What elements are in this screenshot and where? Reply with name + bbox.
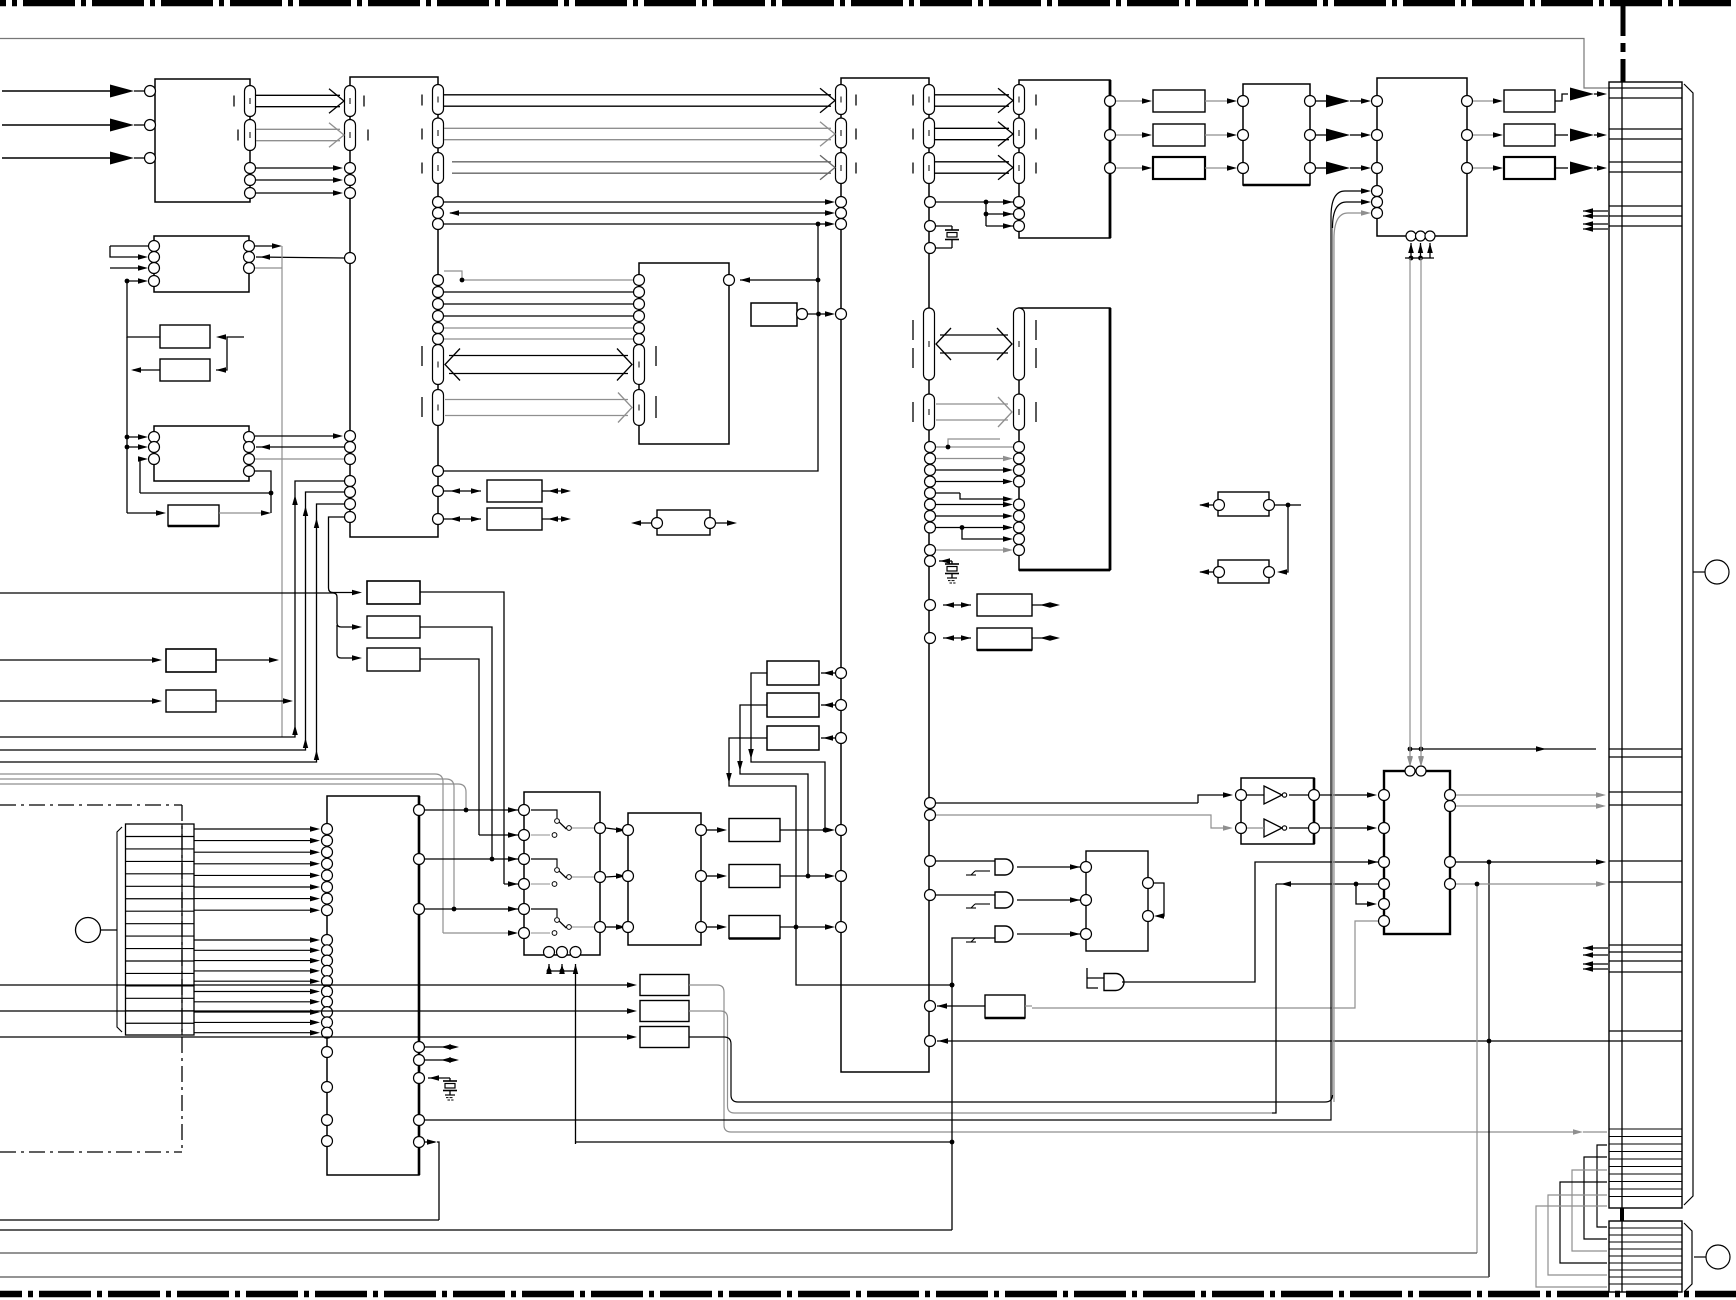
IC U4 encoder	[1019, 80, 1110, 238]
sensor box S3	[0, 1027, 1325, 1103]
resistor block R21	[925, 628, 1061, 650]
wire B2 to connector	[1555, 129, 1607, 142]
bus U2 to U3 C data	[444, 127, 831, 129]
pin bus U10 d	[634, 390, 645, 426]
ref box T3	[726, 726, 846, 929]
wire pickup lines	[194, 824, 333, 1039]
bus U1 to U2 control	[256, 128, 340, 130]
wire U1-U2 s1	[245, 175, 356, 186]
IC U8 sync separator	[154, 236, 249, 292]
wire U3 pin1041	[925, 1036, 1610, 1047]
wire RB1 gray feed	[1032, 921, 1384, 1008]
wire A3 to U11	[1205, 163, 1249, 174]
buffer amp BA2	[1236, 819, 1320, 837]
wire switch riser bottom	[576, 1141, 953, 1143]
wire feedback x818	[433, 224, 821, 477]
rail wire y1253	[0, 1252, 1477, 1254]
wire U6 to SW b	[414, 854, 530, 865]
IC U7 output encoder	[1377, 78, 1467, 236]
wire U2-U10 r1	[433, 287, 645, 298]
input filter FB3	[367, 648, 479, 835]
ref box T2	[737, 693, 846, 878]
wire connector bidir c	[1583, 945, 1608, 958]
wire U8 loop	[110, 241, 160, 287]
delay block R2	[160, 359, 210, 381]
connector CN-A row dividers	[1609, 88, 1682, 1197]
pin bus U2 left A	[345, 86, 356, 117]
bus U1 to U2 data	[256, 94, 340, 96]
wire S3 riser corner	[1325, 1095, 1333, 1102]
wire U3-U4 clk net	[925, 197, 1025, 232]
filter FL1	[1199, 492, 1301, 516]
crystal X1	[925, 221, 960, 254]
connector CN-B outer bracket	[1684, 1223, 1692, 1292]
wire U3 long pair a	[925, 792, 1234, 808]
IC U2 decoder	[350, 77, 438, 537]
input wire IN3	[2, 152, 156, 165]
pin bus U1 right B	[245, 120, 256, 151]
wire U3-U5 d6	[925, 511, 1025, 522]
wire U2-U10 r2	[433, 299, 645, 310]
rail wire y1277	[0, 1276, 1489, 1278]
amp block B3	[1504, 157, 1555, 179]
wire gray riser x282	[281, 246, 283, 737]
top rule wire	[0, 39, 1609, 89]
wire R1R2 link	[127, 281, 244, 513]
wire G2 out	[1017, 895, 1092, 906]
wire U2-U10 r5	[433, 334, 645, 345]
IC U9 PLL	[154, 426, 249, 481]
wire U3-U5 d7	[925, 522, 1025, 533]
wire U3-U5 d1	[925, 453, 1025, 464]
inter-sheet connector CN-A body	[1609, 82, 1682, 1208]
wire U3-U5 d0	[925, 439, 1025, 453]
wire U8 outs	[244, 241, 356, 274]
connector CN-B rows	[1609, 1228, 1682, 1284]
wire U3 to G1	[925, 856, 996, 867]
connector CN-A inner column	[1621, 82, 1623, 1208]
input filter FB1	[367, 581, 504, 884]
wire U7 out 1	[1462, 130, 1504, 141]
pin bus U2 right 3	[433, 153, 444, 184]
wire U6 left aux pins	[322, 1047, 333, 1147]
wire connector bidir a	[1583, 208, 1608, 219]
IC U12 analog switch	[524, 792, 600, 955]
resonator Z1	[631, 510, 737, 535]
pin bus U2 right 1	[433, 85, 444, 115]
crystal X3	[429, 1075, 439, 1081]
wire riser x1332	[1332, 228, 1334, 1095]
wire U7 out 0	[1462, 96, 1504, 107]
amp block A1	[1153, 90, 1205, 112]
wire SW to MUX	[606, 871, 634, 882]
filter FL2	[1199, 505, 1288, 583]
wire MUX outs	[696, 825, 707, 933]
page border bottom (dash-dot bar)	[0, 1291, 1736, 1298]
pin bus U1 right A	[245, 86, 256, 117]
connector CN-A ref circle	[1705, 560, 1729, 584]
wire U4 out 2	[1105, 163, 1153, 174]
wire U2 bus drops	[0, 476, 362, 763]
wire U7 aux inputs	[1331, 186, 1383, 240]
IC U14 line driver	[1241, 778, 1314, 844]
connector CN-B ref circle	[1706, 1245, 1730, 1269]
wire U15 outs right	[1445, 790, 1607, 1278]
pin bus U3 right addr	[924, 308, 935, 380]
bus width ticks	[234, 96, 368, 141]
wire B1 to connector	[1555, 88, 1607, 102]
pin bus U3 right data	[924, 394, 935, 430]
bus U2 to U3 Y data	[444, 94, 831, 96]
IC U6 servo controller	[327, 796, 419, 1175]
connector CN-A outer bracket	[1684, 84, 1693, 1205]
wire U6 aux right pins	[414, 1042, 460, 1084]
wire U3-U5 d8	[960, 525, 1025, 544]
wire connector bidir d	[1583, 961, 1608, 972]
input filter FB2	[367, 616, 494, 861]
wire U2-U10 r3	[433, 311, 645, 322]
IC U16 reset	[1086, 851, 1148, 951]
bus U2 to U3 ctrl	[452, 161, 831, 163]
wire trap drops	[0, 774, 516, 933]
bus U2-U10 data	[445, 399, 628, 401]
AGC box E	[0, 690, 293, 712]
bus U3-U5 addr bidir	[940, 334, 1008, 336]
IC U15 output control	[1384, 771, 1450, 934]
wire U2-U10 r4	[433, 323, 645, 334]
buffer amp BA1	[1236, 786, 1320, 804]
pin bus U2 dram d	[433, 390, 444, 426]
wire riser x1331	[419, 217, 1331, 1120]
crystal X2 with ground	[925, 556, 960, 584]
IC U1 input processor	[155, 79, 250, 202]
wire U3-U5 d5	[925, 499, 1025, 510]
wire connector bidir b	[1583, 221, 1608, 232]
wire U15 pin921	[1379, 916, 1390, 927]
wire U7 out 2	[1462, 163, 1504, 174]
delay block R1	[160, 325, 210, 348]
bus U3 to U4 c	[935, 161, 1009, 163]
wire FB feed drop	[0, 593, 362, 661]
pin bus U3 right 2	[924, 118, 935, 148]
wire U2-U3 h0	[433, 197, 847, 208]
pin bus U10 a	[634, 345, 645, 385]
wire U1-U2 s0	[245, 163, 356, 174]
IC U3 signal processor (center)	[841, 78, 929, 1072]
wire U6 to SW a	[414, 805, 530, 816]
wire G3 out	[1017, 929, 1092, 940]
wire U7 bottom bias	[1405, 231, 1435, 260]
wire U3 to G2	[925, 890, 996, 901]
wire U4 out 0	[1105, 96, 1153, 107]
wire B3 to connector	[1555, 162, 1607, 175]
IC U13 mux	[628, 813, 701, 945]
wire bias rail y749	[1407, 258, 1596, 767]
switch contacts	[531, 810, 606, 935]
amp block B1	[1504, 90, 1555, 112]
pin bus U3 left 2	[836, 118, 847, 148]
wire U16 feedback	[1143, 878, 1165, 922]
sensor box S2	[0, 1001, 1272, 1114]
mechanism boundary dash-dot	[0, 805, 182, 1152]
wire U3-U5 d4	[925, 488, 1014, 502]
amp block A3	[1153, 157, 1205, 179]
bus U2-U10 bidir	[449, 355, 628, 357]
wire SW bottom bias	[544, 947, 582, 1145]
amp block A2	[1153, 124, 1205, 146]
pickup ref circle	[76, 918, 101, 943]
AND gate G2	[966, 892, 1013, 908]
connector CN1 pickup flex	[117, 824, 194, 1035]
wire U10 ctl	[724, 275, 819, 286]
wire U11 to U7 0	[1305, 95, 1383, 108]
rail wire y1230	[0, 1229, 952, 1231]
sheet boundary dash-dot vertical right	[1621, 6, 1626, 82]
pin bus U2 right 2	[433, 118, 444, 148]
wire SW to MUX	[606, 922, 634, 933]
wire riser x1334	[1333, 239, 1335, 1102]
wire U6 pin1141 route	[414, 1137, 440, 1221]
wire U2-U3 h1	[433, 208, 847, 219]
IC U10 DRAM	[639, 263, 729, 444]
wire U9 ins	[125, 432, 160, 494]
wire A2 to U11	[1205, 130, 1249, 141]
wire U11 to U7 1	[1305, 129, 1383, 142]
wire U6 pin1120	[414, 1115, 425, 1126]
pin bus U5 left addr	[1014, 308, 1025, 380]
wire G1 out	[1017, 862, 1092, 873]
wire U2-U10 r0	[433, 271, 645, 286]
inter-sheet connector CN-B body	[1609, 1221, 1682, 1292]
wire U3 long pair b	[925, 810, 1234, 831]
wire T3 tail	[796, 927, 954, 987]
wire U2-U3 h2	[433, 219, 847, 230]
wire SW extra pins	[479, 830, 530, 939]
ref box T1	[748, 661, 846, 832]
bus ticks U3-U4	[913, 95, 1036, 174]
pin bus U3 left 3	[836, 153, 847, 184]
AGC box D	[0, 649, 279, 672]
wire U4 out 1	[1105, 130, 1153, 141]
pin bus U5 left data	[1014, 394, 1025, 430]
wire U3-U5 d2	[925, 465, 1025, 476]
bus ticks U2-U10	[422, 346, 656, 418]
pin bus U2 dram a	[433, 345, 444, 385]
sensor box S1	[0, 975, 1578, 1133]
AND gate G4	[1087, 859, 1378, 990]
wire U15 left aux	[1272, 857, 1390, 1114]
resistor block R20	[925, 594, 1061, 616]
connector CN-B inner column	[1621, 1221, 1623, 1292]
wire S1 to connector	[1573, 1129, 1607, 1135]
IC U5 memory	[1019, 308, 1110, 570]
page border top (dash-dot bar)	[0, 0, 1736, 6]
pin bus U3 left 1	[836, 85, 847, 115]
sheet marker dash between connectors	[1620, 1208, 1624, 1221]
bus U3 to U4 a	[935, 94, 1009, 96]
wire BA to U15	[1320, 790, 1390, 834]
amp block B2	[1504, 124, 1555, 146]
damping resistor RD2	[433, 508, 572, 530]
pin bus U4 left 3	[1014, 153, 1025, 184]
wire U3-U5 d9	[925, 545, 1025, 556]
wire connector jumpers	[1536, 1145, 1607, 1287]
wire U9 outs	[140, 431, 356, 496]
IC U11 video buffer	[1243, 84, 1310, 185]
bus U3 to U4 b	[935, 127, 1009, 129]
ref box RV1	[751, 303, 847, 326]
wire bus riser returns	[292, 725, 319, 760]
pin bus U4 left 2	[1014, 118, 1025, 148]
pin bus U2 left B	[345, 120, 356, 151]
wire U11 to U7 2	[1305, 162, 1383, 175]
reset box RB1	[925, 995, 1033, 1018]
bus U3-U5 data	[936, 403, 1008, 405]
damping resistor RD1	[433, 480, 572, 502]
pin bus U3 right 1	[924, 85, 935, 115]
wire U3-U5 d3	[925, 476, 1025, 487]
level box M3	[707, 916, 847, 939]
bus ticks U3-U5	[913, 320, 1036, 422]
pin bus U4 left 1	[1014, 85, 1025, 115]
wire U15 top pins	[1405, 756, 1426, 776]
level box M1	[707, 819, 847, 842]
wire comb drop	[181, 1034, 183, 1036]
wire U1-U2 s2	[245, 188, 356, 199]
wire G3 input riser	[950, 938, 995, 1230]
level box M2	[707, 865, 847, 888]
AND gate G1	[966, 859, 1013, 875]
input wire IN2	[2, 119, 156, 132]
input wire IN1	[2, 85, 156, 98]
wire U6 to SW c	[414, 904, 530, 915]
bus ticks U2-U3	[422, 95, 856, 174]
AND gate G3	[966, 926, 1013, 942]
wire A1 to U11	[1205, 96, 1249, 107]
wire SW to MUX	[606, 825, 634, 836]
rail wire y1220	[0, 1219, 439, 1221]
pin bus U3 right 3	[924, 153, 935, 184]
VCO block R3	[127, 493, 271, 526]
